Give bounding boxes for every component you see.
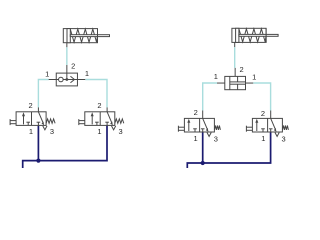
barrel right cap [265,28,267,42]
svg-text:3: 3 [214,134,218,143]
exhaust port 3 silencer triangle [207,133,211,137]
svg-text:2: 2 [240,65,244,74]
check seat chevron [70,76,74,79]
blocked port 1 (rest position) [202,129,204,132]
wire: two-pressure valve left port 1 to valve V3 port 2 [203,83,217,111]
flow path 1-2 arrow (actuated position) [188,122,190,131]
junction dot [65,78,68,81]
wire: two-pressure valve right port 1 to valve V4 port 2 [253,83,270,111]
pin port 2 (top) [234,68,236,77]
svg-text:3: 3 [282,135,286,144]
blocked port 1 (rest position) [106,122,108,125]
blocked port (actuated position) [27,122,29,125]
pushbutton actuator [9,119,11,125]
wire: valve V1 port 1 down to supply line [37,125,39,160]
svg-text:2: 2 [261,109,265,118]
pushbutton actuator [177,126,179,132]
wire: cylinder A port to shuttle valve port 2 [66,47,68,65]
wire: cylinder B port to two-pressure valve port 2 [234,47,236,68]
pin port 2 [202,111,204,119]
outlet stubs to port 2 [237,76,239,82]
svg-text:2: 2 [71,62,75,71]
svg-text:1: 1 [252,72,256,81]
flow path 2-3 arrow (rest position) [107,112,112,123]
valve body [252,118,282,132]
flow path 2-3 arrow (rest position) [271,118,276,129]
piston [236,28,239,42]
piston rod [239,34,278,36]
blocked port (actuated position) [262,129,264,132]
blocked port 1 (rest position) [270,129,272,132]
svg-text:2: 2 [29,101,33,110]
valve body [225,76,246,89]
svg-text:2: 2 [194,108,198,117]
valve body [85,112,115,126]
pin port 2 [37,107,39,111]
shuttle valve (OR) V0a [45,62,89,86]
return spring [282,126,288,130]
flow path 1-2 arrow (actuated position) [256,122,258,131]
svg-text:1: 1 [45,69,49,78]
junction at valve V3 supply [201,161,205,165]
3/2-way valve V1 (pushbutton, spring return) [10,101,55,136]
blocked port (actuated position) [194,129,196,132]
piston [67,29,70,43]
two-pressure valve (AND) V0b [214,65,257,90]
svg-text:1: 1 [194,134,198,143]
svg-text:1: 1 [97,127,101,136]
valve body [184,118,214,132]
3/2-way valve V4 (pushbutton, spring return) [246,109,288,144]
shuttle piston bar [229,76,231,89]
flow path 1-2 arrow (actuated position) [23,115,25,124]
exhaust port 3 silencer triangle [112,126,116,130]
cylinder barrel [232,28,266,42]
svg-text:1: 1 [214,72,218,81]
svg-text:1: 1 [85,69,89,78]
blocked port (actuated position) [96,122,98,125]
wire: shuttle valve right port 1 to valve V2 port 2 [85,80,107,108]
return spring [214,126,220,130]
pin: cylinder B port stub [234,42,236,47]
piston rod [70,35,109,37]
blocked port 1 (rest position) [37,122,39,125]
svg-text:2: 2 [97,101,101,110]
exhaust port 3 silencer triangle [275,133,279,137]
return spring [46,119,55,123]
junction at valve V1 supply [36,159,40,163]
svg-text:1: 1 [29,127,33,136]
pin port 1 (left) [217,82,225,84]
return spring [115,119,124,123]
cylinder barrel [63,29,97,43]
single-acting cylinder B (spring return) [232,28,278,42]
exhaust port 3 silencer triangle [43,126,47,130]
return spring [70,29,97,42]
svg-text:3: 3 [119,127,123,136]
flow channel [230,81,246,83]
pushbutton actuator [245,126,247,132]
wire: shuttle valve left port 1 to valve V1 port 2 [38,80,48,108]
pin port 2 [270,111,272,119]
pin port 1 (right) [77,79,85,81]
wire: valve V3 port 1 down to supply line [202,132,204,163]
flow path 2-3 arrow (rest position) [203,118,208,129]
flow path 1-2 arrow (actuated position) [91,115,93,124]
wire: supply line from valve V2 port 1 to bottom-left drop [23,125,107,168]
single-acting cylinder A (spring return) [63,29,109,43]
svg-text:1: 1 [261,134,265,143]
3/2-way valve V3 (pushbutton, spring return) [178,108,220,143]
valve body [56,73,77,86]
pin: cylinder A port stub [66,43,68,48]
pin port 2 [106,107,108,111]
pin port 1 (right) [246,82,254,84]
3/2-way valve V2 (pushbutton, spring return) [79,101,124,136]
barrel right cap [97,29,99,43]
shuttle ball [59,77,64,82]
pushbutton actuator [78,119,80,125]
pin port 1 (left) [49,79,57,81]
svg-text:3: 3 [50,127,54,136]
return spring [239,29,266,42]
wire: supply line from valve V4 port 1 to bottom drop [187,132,270,169]
flow path 2-3 arrow (rest position) [38,112,43,123]
valve body [16,112,46,126]
pin port 2 (top) [66,65,68,73]
